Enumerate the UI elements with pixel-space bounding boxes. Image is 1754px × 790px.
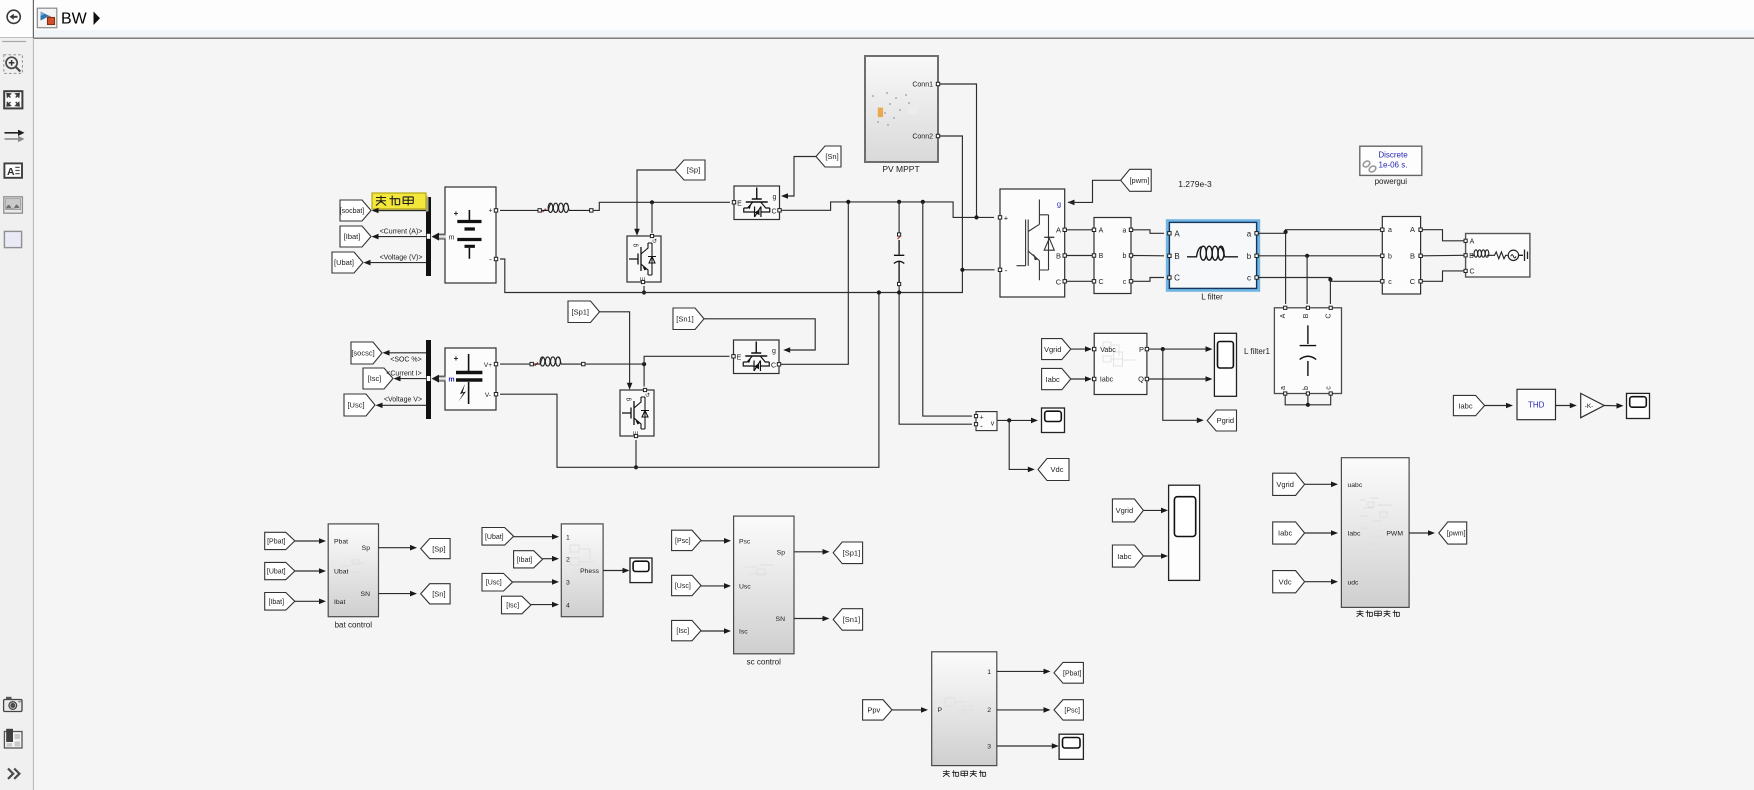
goto tag Sn [421,584,450,604]
svg-text:c: c [1123,279,1127,286]
label low-pass filter (CJK) [943,770,986,777]
from tag Usc (Phess) [482,573,513,591]
svg-text:b: b [1303,386,1310,390]
battery block [445,187,498,283]
powergui block [1360,146,1422,175]
svg-text:g: g [773,194,777,201]
subsystem sc control [734,516,794,654]
from tag Ppv [863,700,892,720]
svg-text:Discrete: Discrete [1378,151,1408,160]
svg-text:Conn1: Conn1 [912,82,933,89]
svg-text:g: g [626,398,632,401]
svg-text:powergui: powergui [1375,177,1408,186]
wire block2 B to grid B [1423,254,1464,257]
arrowhead into Sp goto [410,545,417,551]
wire C-filter neutral a [1285,395,1331,405]
wire Sn to IGBT1 gate [784,157,816,197]
wire inductor2 to junction [585,363,644,365]
svg-text:g: g [633,244,639,247]
wire supercap V+ to inductor2 [500,363,530,365]
series inductor L2 [530,357,585,366]
arrowhead Psc [724,538,731,544]
svg-text:+: + [454,354,459,363]
three-phase block 2 [1381,217,1423,295]
arrowhead Pbat [319,538,326,544]
from tag Iabc (ctrl) [1273,522,1305,544]
svg-text:P: P [1139,345,1144,354]
supercapacitor block [445,348,498,410]
arrowhead into Ubat [364,260,371,266]
from tag Pbat [265,532,295,549]
from tag Vdc (ctrl) [1273,571,1305,593]
arrowhead into chopper2 g [627,383,633,390]
svg-text:[socbat]: [socbat] [340,208,365,215]
wire block2 C to grid C [1423,271,1464,281]
junction chopper1 C on line [650,200,654,204]
svg-text:V+: V+ [484,362,492,369]
svg-text:A: A [1280,313,1287,318]
goto tag Usc [344,394,375,416]
wire Psc to sc control [701,540,727,542]
subsystem PV MPPT [865,56,940,162]
svg-text:c: c [1247,274,1251,283]
from tag Usc (sc) [672,575,701,595]
svg-text:↺: ↺ [652,238,657,245]
junction phase c to C-filter [1328,277,1332,281]
svg-text:sc control: sc control [747,658,781,667]
svg-text:[Isc]: [Isc] [676,628,689,635]
top toolbar background [0,0,1754,38]
arrowhead into Sp1 goto [823,549,830,555]
svg-text:Q: Q [1138,375,1144,384]
wire bat SN to tag [379,593,414,595]
wire PQ P to scope [1149,348,1210,350]
from tag Psc [672,530,701,550]
svg-text:A: A [1056,225,1061,234]
svg-text:THD: THD [1528,401,1545,410]
arrowhead into IGBT2 g [783,347,790,353]
wire IGBT1 C to DC+ bus [782,202,995,218]
arrowhead into Vdc goto [1028,467,1035,473]
sidebar area icon [4,231,21,247]
svg-text:Ubat: Ubat [334,569,348,576]
svg-text:1: 1 [987,669,991,676]
svg-text:a: a [1247,230,1252,239]
svg-text:+: + [1004,213,1009,222]
arrowhead udc [1331,579,1338,585]
subsystem inverter control [1341,458,1409,608]
svg-text:Iabc: Iabc [1046,375,1060,384]
wire battery+ to inductor1 [500,209,538,211]
wire P to Pgrid tag [1163,349,1200,420]
LPF port labels [938,669,992,751]
label inverter control (CJK) [1357,610,1400,617]
svg-text:C: C [1410,277,1416,286]
arrowhead into THD [1506,403,1513,409]
svg-text:[Sp]: [Sp] [432,544,445,553]
wire inductor1 to IGBT1 E [593,202,730,210]
arrowhead into Sn goto [410,591,417,597]
arrowhead into Sn1 goto [823,616,830,622]
svg-text:SN: SN [361,591,371,598]
wire down to chopper1 C [651,202,653,233]
label 未使用 (unused) highlight [372,193,429,212]
svg-text:[Usc]: [Usc] [486,580,502,587]
wire v output to scope [997,419,1034,421]
goto tag Sn1 [833,609,862,631]
arrowhead P into scope [1206,346,1213,352]
svg-text:+: + [979,415,983,422]
svg-text:Iabc: Iabc [1348,531,1361,538]
arrowhead Ibat [319,599,326,605]
arrowhead Usc [724,583,731,589]
wire DC- to voltage measurement [899,293,972,425]
arrowhead Isc [724,628,731,634]
junction phase b to C-filter [1305,254,1309,258]
wire v output to Vdc tag [1009,420,1031,469]
svg-text:Sp: Sp [777,549,786,556]
wire junction down to chopper2 C [643,364,645,386]
scope Phess [630,558,652,583]
arrowhead into inverter g [1068,200,1075,206]
sidebar separator [2,41,26,43]
wire phase b down to C-filter [1306,256,1308,304]
junction chopper2 E on lower rail [634,465,638,469]
arrowhead into Psc goto [1044,707,1051,713]
supercap bus selector bar [426,340,431,419]
junction DC link cap top [897,200,901,204]
wire ctrl PWM to pwm tag [1409,532,1431,534]
arrowhead into Vdc scope [1031,418,1038,424]
grid source block [1464,234,1530,278]
wire IGBT2 C up to DC+ bus [781,202,848,364]
wire cap top stub [898,202,900,233]
from tag Iabc (THD) [1453,395,1484,415]
wire Vgrid to ctrl [1305,483,1334,485]
svg-text:1e-06 s.: 1e-06 s. [1379,161,1408,170]
svg-text:Ppv: Ppv [867,706,880,715]
junction P output [1161,347,1165,351]
subsystem low-pass filter [932,652,997,766]
arrowhead Q into scope [1206,376,1213,382]
arrowhead Iabc scope [1161,553,1168,559]
svg-text:Pgrid: Pgrid [1217,416,1235,425]
goto tag socbat [340,200,371,221]
svg-text:A: A [1099,227,1104,234]
Phess port labels [566,534,600,609]
svg-text:V-: V- [485,392,491,399]
svg-text:Vgrid: Vgrid [1276,480,1294,489]
battery bus selector bar [426,197,431,276]
svg-text:g: g [772,348,776,355]
svg-text:[Ibat]: [Ibat] [517,557,533,564]
arrowhead into pwm goto [1428,530,1435,536]
scope LPF [1059,734,1083,759]
goto tag Pgrid [1207,410,1236,431]
svg-text:BW: BW [61,11,88,28]
wire Ibat to bat control [295,600,322,602]
svg-text:3: 3 [566,580,570,587]
wire Conn1 to DC+ [940,84,977,217]
svg-text:a: a [1123,227,1127,234]
svg-text:udc: udc [1348,579,1360,586]
wire Lfilter c to block2 c [1259,278,1380,282]
wire inverter C to measure C [1067,280,1092,282]
from tag Sn1 [673,308,704,330]
svg-text:B: B [1099,253,1104,260]
svg-text:[Sn]: [Sn] [825,152,838,161]
svg-text:Vdc: Vdc [1051,465,1064,474]
svg-text:b: b [1123,253,1127,260]
from tag Ubat (Phess) [482,528,514,546]
svg-text:B: B [1469,253,1474,260]
svg-text:a: a [1280,386,1287,390]
sidebar model browser icon [4,729,22,748]
wire Vgrid to PQ [1071,348,1088,350]
svg-text:B: B [1174,252,1179,261]
from tag Vgrid (scope) [1112,499,1143,522]
goto tag pwm [1439,522,1467,544]
arrowhead into IGBT1 g [781,193,788,199]
sidebar zoom icon [4,55,23,74]
wire chopper2 E down to lower rail [635,440,637,467]
arrowhead into Pbat goto [1044,669,1051,675]
wire battery minus down [500,259,995,293]
svg-text:-K-: -K- [1585,403,1594,410]
wire bus to Isc tag [396,378,426,380]
from tag Sn [816,146,841,167]
wire Vgrid to scope6 [1143,509,1164,511]
from tag Ibat (Phess) [514,551,543,568]
svg-text:m: m [448,377,454,384]
inverter control port labels [1348,482,1404,586]
from tag Isc (Phess) [502,596,531,614]
svg-text:a: a [1388,227,1392,234]
svg-text:4: 4 [566,602,570,609]
svg-text:Iabc: Iabc [1100,377,1114,384]
svg-text:Pbat: Pbat [334,539,348,546]
svg-text:SN: SN [776,616,786,623]
sidebar annotation icon [4,163,22,178]
wire Sp1 to chopper2 gate [600,312,630,385]
svg-text:2: 2 [987,707,991,714]
wire chopper1 E down to negative bus [643,286,645,293]
svg-text:A: A [1470,239,1475,246]
arrowhead into LPF scope [1052,743,1059,749]
svg-text:c: c [1388,279,1392,286]
wire phase c down to C-filter [1329,280,1331,305]
svg-text:Vabc: Vabc [1100,347,1116,354]
svg-text:L filter1: L filter1 [1244,347,1270,356]
goto tag Ibat [340,226,371,247]
wire Iabc to PQ [1071,378,1088,380]
arrowhead into THD scope [1617,403,1624,409]
left sidebar background [0,38,33,790]
svg-text:[Psc]: [Psc] [1064,707,1080,714]
svg-text:b: b [1388,253,1392,260]
THD block [1517,389,1556,419]
svg-text:[Sp1]: [Sp1] [571,307,589,316]
arrowhead Vgrid scope [1161,508,1168,514]
junction v output [1007,418,1011,422]
from tag Sp [675,160,705,180]
wire Lfilter a to block2 a [1259,230,1380,234]
svg-text:+: + [454,209,459,218]
scope P and Q [1214,333,1236,396]
wire DC+ to voltage measurement [923,202,972,416]
sidebar signal arrows icon [5,130,25,143]
svg-text:C: C [771,363,776,370]
svg-text:[socsc]: [socsc] [351,349,374,358]
wire bus to socbat tag [374,210,426,212]
svg-text:A: A [1410,225,1415,234]
svg-text:[Ibat]: [Ibat] [268,599,284,606]
svg-text:[Sp]: [Sp] [687,166,700,175]
svg-text:[Sn1]: [Sn1] [843,615,861,624]
goto tag Sp [421,539,450,559]
sidebar back button [7,10,20,23]
arrowhead into gain [1570,403,1577,409]
goto tag Psc [1054,700,1083,720]
boost IGBT2 [732,340,781,374]
arrowhead Phess4 [552,602,559,608]
supercap measurement bus arrow m [432,375,446,383]
wire Ibat to Phess 2 [543,558,555,560]
wire Isc to Phess 4 [531,604,555,606]
from tag Vgrid (PQ) [1042,339,1071,360]
simulink model icon [37,8,57,28]
svg-text:Phess: Phess [580,568,599,575]
svg-text:[pwm]: [pwm] [1129,176,1149,185]
from tag pwm [1121,169,1152,191]
junction IGBT2 output on DC+ bus [846,200,850,204]
from tag Iabc (scope) [1112,545,1143,567]
svg-text:[Usc]: [Usc] [347,401,364,410]
arrowhead into PQ Iabc [1085,376,1092,382]
wire bus to socsc tag [385,352,426,354]
wire inverter B to measure B [1067,255,1092,257]
junction Conn1 on plus wire [974,215,978,219]
universal bridge inverter [998,189,1066,297]
chopper IGBT2 (supercap leg) [620,388,654,437]
arrowhead into socbat [372,208,379,214]
wire bus to Ibat tag [374,236,426,238]
svg-text:-: - [489,255,492,264]
svg-text:b: b [1247,252,1252,261]
wire bus to Ubat tag [366,262,426,264]
wire phase a down to C-filter [1285,232,1287,304]
arrowhead into PQ Vabc [1085,346,1092,352]
wire LPF out3 to scope [997,745,1055,747]
junction Vdc sense on DC+ bus [921,200,925,204]
L filter selection highlight [1168,221,1259,290]
svg-text:Iabc: Iabc [1458,401,1472,410]
arrowhead Ubat [319,568,326,574]
PQ measurement block [1093,333,1149,394]
svg-text:P: P [938,707,943,714]
junction chopper1 E on neg bus [642,290,646,294]
from tag Iabc (PQ) [1042,368,1071,389]
from tag Ibat (bat) [265,593,295,611]
svg-text:Iabc: Iabc [1117,552,1131,561]
svg-text:[Sn1]: [Sn1] [676,314,694,323]
sidebar fit-view icon [4,91,22,108]
arrowhead into Isc [394,376,401,382]
goto tag socsc [351,342,382,364]
junction phase a to C-filter [1284,230,1288,234]
svg-text:[Ubat]: [Ubat] [267,569,286,576]
svg-text:C: C [771,209,776,216]
svg-text:C: C [1174,274,1180,283]
wire LPF out1 to Pbat tag [997,670,1047,672]
from tag Isc (sc) [672,620,701,640]
arrowhead into Phess scope [623,568,630,574]
svg-text:g: g [1057,199,1061,208]
wire bus to Usc tag [378,404,426,406]
svg-text:E: E [737,200,742,207]
svg-text:C: C [1056,277,1062,286]
wire LPF out2 to Psc tag [997,709,1047,711]
wire bat Sp to tag [379,547,414,549]
goto tag Pbat [1054,662,1083,683]
svg-text:[Usc]: [Usc] [675,583,691,590]
chopper IGBT1 (battery leg) [627,234,661,283]
svg-text:PWM: PWM [1386,531,1403,538]
svg-text:[Psc]: [Psc] [675,538,691,545]
wire measure b to Lfilter B [1133,255,1164,257]
wire Isc to sc control [701,630,727,632]
arrowhead Phess3 [552,579,559,585]
svg-text:Vgrid: Vgrid [1044,345,1062,354]
wire sc SN to Sn1 tag [794,618,826,620]
boost IGBT1 [732,186,781,220]
arrowhead into chopper1 g [634,229,640,236]
svg-text:Psc: Psc [739,538,751,545]
arrowhead Phess1 [552,534,559,540]
wire block2 A to grid A [1423,230,1464,241]
L filter block [1168,222,1259,288]
wire Iabc to THD [1485,405,1509,407]
svg-text:v: v [991,421,995,428]
wire THD to gain [1556,405,1574,407]
wire junction up to IGBT2 E [644,356,729,364]
wire Sp to chopper1 gate [637,170,675,231]
svg-text:+: + [488,208,492,215]
svg-text:[Sn]: [Sn] [432,590,445,599]
svg-text:B: B [1056,251,1061,260]
wire Iabc to ctrl [1305,532,1334,534]
svg-text:PV MPPT: PV MPPT [882,164,919,174]
wire Vdc to ctrl [1305,581,1334,583]
svg-text:<Voltage (V)>: <Voltage (V)> [380,255,423,262]
svg-text:[Isc]: [Isc] [506,603,519,610]
svg-text:Iabc: Iabc [1278,529,1292,538]
scope Vdc [1042,408,1065,433]
svg-text:-: - [1005,265,1008,275]
arrowhead uabc [1331,482,1338,488]
svg-text:B: B [1410,251,1415,260]
wire measure c to Lfilter C [1133,278,1164,282]
wire PQ Q to scope [1149,378,1210,380]
svg-text:L filter: L filter [1201,293,1223,302]
from tag Ubat (bat) [265,562,295,579]
subsystem bat control [328,524,378,617]
wire Iabc to scope6 [1143,555,1164,557]
gain block -K- [1581,393,1605,417]
svg-text:Usc: Usc [739,583,751,590]
svg-text:[Pbat]: [Pbat] [1063,670,1081,677]
subsystem Phess [561,524,603,617]
